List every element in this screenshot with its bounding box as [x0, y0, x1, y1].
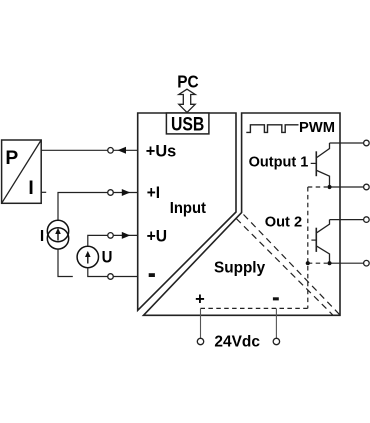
dashed common stub Q2 — [308, 262, 328, 264]
wire supply plus — [200, 308, 202, 338]
transmitter diagonal — [2, 140, 42, 203]
current source I circles — [47, 220, 68, 249]
terminal out1 emitter — [364, 184, 370, 190]
input block outline — [138, 113, 236, 310]
label minus input — [149, 273, 155, 277]
terminal out2 collector — [364, 217, 370, 223]
terminal out1 collector — [364, 140, 370, 146]
svg-text:+U: +U — [147, 227, 167, 245]
svg-text:+: + — [195, 290, 205, 308]
svg-text:Supply: Supply — [214, 260, 265, 277]
arrow +Us left — [118, 147, 126, 154]
svg-text:+Us: +Us — [146, 143, 176, 161]
USB double arrow — [179, 89, 195, 112]
transistor Q2 — [311, 220, 329, 264]
wire minus terminal to input — [113, 276, 138, 278]
svg-text:I: I — [40, 228, 44, 245]
wire current source bottom — [58, 249, 73, 276]
label minus supply — [273, 297, 279, 300]
wire +U from voltage source — [88, 235, 108, 246]
transmitter I stub — [41, 191, 46, 193]
terminal +I — [108, 190, 114, 196]
voltage source U circle — [77, 246, 98, 267]
dashed common stub Q1 — [308, 186, 328, 188]
svg-text:24Vdc: 24Vdc — [214, 334, 260, 351]
terminal out2 emitter — [364, 260, 370, 266]
dashed supply horizontal — [201, 307, 308, 309]
transmitter P/I box — [2, 140, 42, 203]
arrow +U right — [122, 232, 130, 239]
wire Q2 emitter — [330, 262, 364, 264]
svg-text:U: U — [102, 249, 113, 267]
USB port box U1 — [166, 113, 209, 134]
PWM waveform — [246, 125, 298, 133]
wire Q1 emitter — [330, 186, 364, 188]
wire +Us terminal to input — [113, 149, 138, 151]
wire +U terminal to input — [113, 234, 138, 236]
wire Q1 collector — [330, 142, 364, 144]
svg-text:Output 1: Output 1 — [249, 154, 309, 171]
arrow +I right — [122, 189, 130, 196]
svg-text:Input: Input — [170, 200, 206, 217]
wire +Us to transmitter — [41, 149, 108, 151]
terminal supply minus — [273, 338, 279, 344]
svg-text:PWM: PWM — [299, 119, 335, 136]
output+supply block outline — [144, 113, 341, 315]
terminal supply plus — [197, 338, 203, 344]
svg-text:USB: USB — [171, 114, 204, 135]
svg-text:+I: +I — [147, 184, 160, 202]
wire supply minus — [275, 308, 277, 338]
dashed common vertical — [307, 187, 309, 308]
transistor Q1 — [311, 143, 330, 187]
dashed isolation diagonal 1 — [244, 215, 341, 316]
wire +I horizontal — [58, 193, 108, 221]
svg-text:Out 2: Out 2 — [265, 213, 302, 230]
dashed isolation diagonal 2 — [236, 219, 333, 316]
junction Q1 emitter — [327, 185, 331, 189]
wire +I terminal to input — [113, 192, 138, 194]
terminal +Us — [108, 148, 114, 154]
wire Q2 collector — [330, 219, 364, 221]
svg-text:P: P — [5, 148, 18, 169]
junction Q2 emitter — [327, 261, 331, 265]
terminal minus input — [108, 274, 114, 280]
junction dashed Q2 — [306, 261, 310, 265]
terminal +U — [108, 233, 114, 239]
wire minus from voltage source — [88, 268, 108, 277]
svg-text:PC: PC — [177, 72, 198, 91]
svg-text:I: I — [28, 178, 33, 199]
